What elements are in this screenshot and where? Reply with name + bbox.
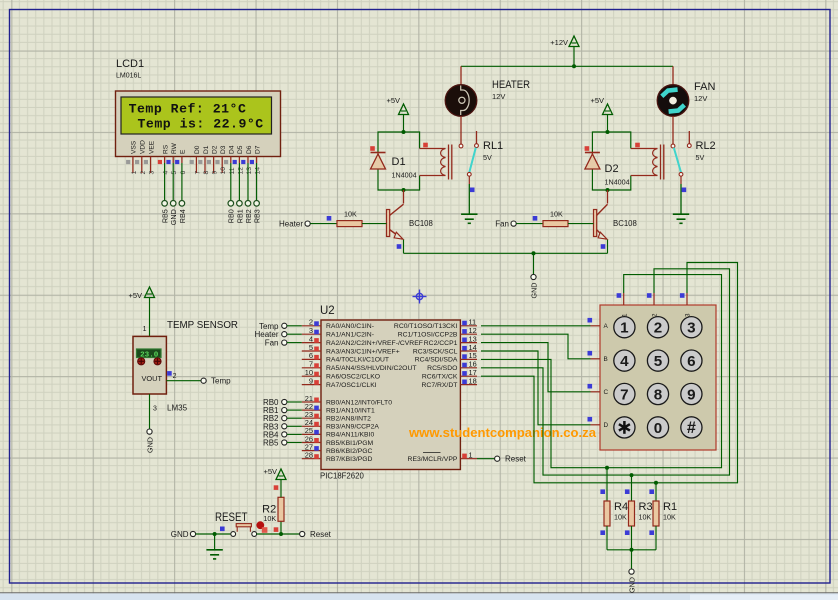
svg-text:4: 4 [163, 171, 170, 175]
svg-text:RE3/MCLR/VPP: RE3/MCLR/VPP [408, 456, 458, 463]
svg-text:Fan: Fan [265, 339, 279, 348]
svg-text:+5V: +5V [128, 291, 142, 300]
junction R2 bottom [279, 532, 283, 536]
transistor Q1 BC108 [387, 190, 433, 239]
svg-text:D1: D1 [392, 156, 406, 168]
svg-text:2: 2 [140, 171, 147, 175]
svg-text:GND: GND [529, 283, 538, 299]
svg-text:8: 8 [654, 386, 662, 403]
svg-text:5: 5 [654, 353, 663, 370]
svg-text:D4: D4 [229, 145, 236, 154]
svg-text:8: 8 [203, 171, 210, 175]
svg-text:RC7/RX/DT: RC7/RX/DT [422, 382, 458, 389]
svg-text:3: 3 [149, 171, 156, 175]
resistor R3 10K [625, 489, 653, 535]
svg-text:R3: R3 [639, 501, 653, 513]
svg-text:RL2: RL2 [696, 140, 716, 152]
svg-text:D7: D7 [254, 145, 261, 154]
svg-text:D2: D2 [211, 145, 218, 154]
svg-text:VOUT: VOUT [141, 374, 162, 383]
wire column to resistor R1 [655, 483, 657, 501]
node terminals Temp Heater Fan at U2 [254, 322, 286, 348]
push button RESET [231, 524, 257, 537]
junction top of D1 loop [402, 130, 406, 134]
node terminal GND below resistors [627, 569, 636, 593]
wire column to resistor R4 [606, 468, 608, 501]
keypad body [600, 305, 716, 450]
wire Q1 emitter down [403, 240, 405, 254]
svg-text:+5V: +5V [590, 96, 604, 105]
svg-text:5V: 5V [696, 153, 705, 162]
logic state square at Q2 emitter [601, 244, 606, 249]
svg-text:PIC18F2620: PIC18F2620 [320, 472, 364, 481]
wire emitter bus to GND terminal [533, 253, 535, 274]
wire fan top lead [672, 66, 674, 84]
svg-text:R4: R4 [614, 501, 628, 513]
microcontroller U2 PIC18F2620 body [320, 305, 460, 481]
wire pin 1 to Reset terminal [477, 458, 495, 460]
resistor R1 10K [649, 489, 677, 535]
resistor 10K base of Q2 [543, 209, 568, 226]
heater lamp HEATER [445, 79, 530, 116]
svg-text:6: 6 [687, 353, 695, 370]
svg-text:9: 9 [687, 386, 695, 403]
svg-text:RW: RW [171, 142, 178, 154]
svg-text:1: 1 [131, 171, 138, 175]
svg-text:Temp: Temp [211, 377, 231, 386]
keypad buttons 1-9 * 0 # [614, 317, 702, 438]
wire relay RL1 pole to ground [468, 176, 470, 214]
svg-text:7: 7 [620, 386, 628, 403]
watermark www.studentcompanion.co.za [408, 425, 597, 440]
U2 pins RB0-RB7 (pins 21-28) with pin numbers [302, 394, 392, 463]
svg-text:RB3/AN9/CCP2A: RB3/AN9/CCP2A [326, 424, 379, 431]
wire U2 pin16 keypad column2 net [481, 269, 730, 475]
node terminal Heater [279, 220, 310, 229]
svg-text:RC2/CCP1: RC2/CCP1 [424, 340, 458, 347]
power +5V above RL1 coil loop [386, 96, 408, 132]
svg-text:RB1/AN10/INT1: RB1/AN10/INT1 [326, 407, 375, 414]
wire bus to GND terminal [631, 550, 633, 569]
wire Heater terminal to resistor [310, 223, 337, 225]
svg-text:+5V: +5V [386, 96, 400, 105]
junction bottom of D1 loop [402, 188, 406, 192]
wire R2 bottom lead [280, 521, 282, 534]
relay RL1 contact [459, 131, 503, 176]
logic state square on Heater wire [327, 216, 332, 221]
diode D2 1N4004 [585, 146, 630, 186]
svg-text:10K: 10K [344, 209, 357, 218]
svg-text:RB5: RB5 [263, 439, 279, 448]
wire LM35 pin 3 to GND [150, 394, 158, 429]
sensor label TEMP SENSOR [167, 319, 238, 331]
wire reset button to R2 and Reset terminal [257, 533, 300, 535]
svg-text:RA2/AN2/C2IN+/VREF-/CVREF: RA2/AN2/C2IN+/VREF-/CVREF [326, 340, 423, 347]
junction bottom of D2 loop [606, 188, 610, 192]
wire U2 pin15 keypad column1 net [481, 275, 722, 468]
svg-text:RC0/T1OSO/T13CKI: RC0/T1OSO/T13CKI [394, 323, 458, 330]
svg-text:2: 2 [654, 320, 662, 337]
temperature sensor U1 LM35 body [133, 336, 166, 394]
svg-text:LM35: LM35 [167, 404, 188, 413]
node terminals RB5 GND RB4 RB0 RB1 RB2 RB3 below LCD [161, 201, 262, 226]
svg-text:LM016L: LM016L [116, 73, 141, 80]
junction column1 at R4 [605, 466, 609, 470]
svg-text:11: 11 [229, 167, 236, 174]
svg-text:RA0/AN0/C1IN-: RA0/AN0/C1IN- [326, 323, 374, 330]
svg-text:RB0/AN12/INT0/FLT0: RB0/AN12/INT0/FLT0 [326, 399, 392, 406]
svg-text:D5: D5 [237, 145, 244, 154]
wire resistor ground bus [607, 549, 656, 551]
wire emitter ground bus [404, 252, 608, 254]
LM35 part label [167, 404, 188, 413]
svg-text:FAN: FAN [694, 81, 715, 93]
LCD pin name labels VSS VDD VEE RS RW E D0-D7 [131, 140, 262, 154]
svg-text:GND: GND [169, 209, 178, 225]
svg-text:3: 3 [687, 320, 695, 337]
svg-text:RA7/OSC1/CLKI: RA7/OSC1/CLKI [326, 382, 377, 389]
svg-text:12V: 12V [694, 94, 707, 103]
svg-text:6: 6 [180, 171, 187, 175]
keypad column pins 1 2 3 [617, 293, 692, 317]
svg-text:VEE: VEE [148, 140, 155, 154]
svg-text:7: 7 [194, 171, 201, 175]
node terminal Reset at U2 [495, 455, 527, 464]
svg-text:1N4004: 1N4004 [605, 178, 630, 187]
svg-text:Temp is: 22.9°C: Temp is: 22.9°C [138, 116, 264, 131]
svg-text:VSS: VSS [131, 140, 138, 154]
node terminals RB0-RB5 at U2 [263, 398, 287, 448]
resistor R2 10K [262, 485, 284, 532]
LCD text line 1 [129, 101, 247, 116]
wire U2 pin17 keypad column3 net [481, 263, 738, 483]
svg-text:RA1/AN1/C2IN-: RA1/AN1/C2IN- [326, 332, 374, 339]
svg-text:RB5/KBI1/PGM: RB5/KBI1/PGM [326, 440, 374, 447]
LCD text line 2 [138, 116, 264, 131]
svg-text:2: 2 [173, 373, 177, 380]
wire resistor R4 bottom [606, 526, 608, 550]
svg-text:D: D [604, 422, 609, 429]
logic state square below RL2 [682, 188, 687, 193]
svg-text:5V: 5V [483, 153, 492, 162]
svg-text:C: C [604, 389, 609, 396]
svg-text:10K: 10K [263, 514, 276, 523]
wire resistor R1 bottom [655, 526, 657, 550]
wire column to resistor R3 [631, 475, 633, 501]
svg-text:RB3: RB3 [253, 209, 262, 223]
wire resistor to Q1 base [362, 223, 387, 225]
resistor R4 10K [600, 489, 628, 535]
svg-text:RB7/KBI3/PGD: RB7/KBI3/PGD [326, 456, 373, 463]
U2 pin RE3/MCLR/VPP (pin 1) [408, 451, 477, 464]
svg-text:1: 1 [620, 320, 629, 337]
svg-text:4: 4 [620, 353, 629, 370]
svg-text:Reset: Reset [310, 530, 332, 539]
svg-text:R1: R1 [663, 501, 677, 513]
svg-text:Fan: Fan [495, 220, 509, 229]
wire diode D2 / relay coil loop [592, 132, 630, 190]
svg-text:BC108: BC108 [409, 219, 433, 228]
svg-text:Reset: Reset [505, 455, 527, 464]
power +5V above RL2 coil loop [590, 96, 612, 132]
svg-text:9: 9 [212, 171, 219, 175]
node terminal GND below transistors [529, 274, 538, 298]
node terminal Fan [495, 220, 516, 229]
svg-text:RC5/SDO: RC5/SDO [427, 365, 457, 372]
button label RESET [215, 512, 248, 524]
svg-text:RESET: RESET [215, 512, 248, 524]
svg-text:10K: 10K [639, 513, 652, 522]
svg-text:www.studentcompanion.co.za: www.studentcompanion.co.za [408, 425, 597, 440]
wire heater lamp to relay RL1 common [460, 116, 462, 144]
svg-text:1: 1 [469, 451, 473, 460]
wire U2 pin14 to keypad row D [481, 351, 591, 425]
wire R2 top lead [280, 480, 282, 498]
svg-text:RA3/AN3/C1IN+/VREF+: RA3/AN3/C1IN+/VREF+ [326, 348, 400, 355]
wire diode D1 / relay coil loop [378, 132, 420, 190]
svg-text:B: B [604, 356, 608, 363]
svg-text:+12V: +12V [550, 38, 568, 47]
svg-text:Heater: Heater [279, 220, 303, 229]
logic state square on Fan wire [533, 216, 538, 221]
junction column2 at R3 [630, 473, 634, 477]
svg-text:RB6/KBI2/PGC: RB6/KBI2/PGC [326, 448, 373, 455]
svg-text:U2: U2 [320, 305, 335, 317]
svg-text:D0: D0 [194, 145, 201, 154]
svg-text:9: 9 [309, 376, 313, 385]
svg-text:D2: D2 [605, 163, 619, 175]
junction reset ground [213, 532, 217, 536]
node terminal GND at reset [171, 530, 196, 539]
svg-text:Temp Ref: 21°C: Temp Ref: 21°C [129, 101, 247, 116]
wire Fan terminal to resistor [516, 223, 543, 225]
svg-text:18: 18 [469, 376, 477, 385]
wire U2 pin13 to keypad row C [481, 343, 591, 392]
svg-text:10K: 10K [614, 513, 627, 522]
svg-text:RS: RS [162, 144, 169, 154]
svg-text:12: 12 [237, 167, 244, 175]
svg-text:10K: 10K [663, 513, 676, 522]
wire LM35 VOUT to Temp terminal [166, 371, 201, 381]
svg-text:RB4: RB4 [178, 209, 187, 223]
svg-text:0: 0 [654, 420, 662, 437]
svg-text:12V: 12V [492, 92, 505, 101]
wire Q2 emitter down [607, 240, 609, 254]
node terminal Reset bottom [300, 530, 332, 539]
junction top of D2 loop [606, 130, 610, 134]
transistor Q2 BC108 [594, 190, 637, 239]
svg-text:RL1: RL1 [483, 140, 503, 152]
U2 pins RC0-RC7 (pins 11-18) with pin numbers [394, 318, 477, 389]
svg-text:RA5/AN4/SS/HLVDIN/C2OUT: RA5/AN4/SS/HLVDIN/C2OUT [326, 365, 417, 372]
relay RL2 contact [671, 131, 716, 176]
junction resistor ground bus [630, 548, 634, 552]
wire +12V rail [461, 65, 673, 67]
LCD part label LCD1 [116, 58, 144, 80]
svg-text:BC108: BC108 [613, 219, 637, 228]
svg-text:D3: D3 [220, 145, 227, 154]
wire heater lamp top lead [460, 66, 462, 84]
svg-text:RC3/SCK/SCL: RC3/SCK/SCL [413, 348, 458, 355]
svg-text:RA4/T0CLKI/C1OUT: RA4/T0CLKI/C1OUT [326, 357, 389, 364]
wire +5V to LM35 pin 1 [143, 298, 150, 337]
svg-text:D1: D1 [203, 145, 210, 154]
power +5V above R2 [263, 467, 286, 480]
wire U2 pin12 to keypad row B [481, 334, 591, 359]
svg-text:A: A [604, 323, 609, 330]
ground symbol at reset [206, 534, 222, 559]
LCD display LCD1 body [116, 91, 281, 157]
svg-text:RB2/AN8/INT2: RB2/AN8/INT2 [326, 416, 371, 423]
svg-text:RA6/OSC2/CLKO: RA6/OSC2/CLKO [326, 374, 380, 381]
LCD pin stubs and pin numbers 1-14 [126, 157, 262, 175]
wire relay RL2 pole to ground [680, 176, 682, 214]
relay RL1 coil [420, 143, 452, 180]
svg-text:TEMP SENSOR: TEMP SENSOR [167, 319, 238, 331]
wire LCD pins 4,5,6,11-14 to terminals [165, 163, 257, 201]
svg-text:VDD: VDD [140, 140, 147, 154]
wire Temp Heater Fan terminals to U2 pins [287, 326, 302, 343]
svg-text:28: 28 [305, 451, 313, 460]
svg-text:E: E [180, 149, 187, 154]
svg-text:HEATER: HEATER [492, 79, 530, 91]
svg-text:RC4/SDI/SDA: RC4/SDI/SDA [415, 357, 458, 364]
LCD screen [121, 97, 272, 134]
power +5V above LM35 [128, 287, 154, 300]
svg-text:GND: GND [627, 577, 636, 593]
svg-text:LCD1: LCD1 [116, 58, 144, 70]
resistor 10K base of Q1 [337, 209, 362, 226]
svg-text:RC6/TX/CK: RC6/TX/CK [422, 374, 458, 381]
svg-text:14: 14 [255, 167, 262, 175]
relay RL2 coil [631, 143, 664, 180]
wire fan to relay RL2 common [672, 116, 674, 144]
diode D1 1N4004 [370, 146, 416, 179]
wire RB0-RB5 terminals to U2 pins [287, 402, 302, 443]
svg-text:RB4/AN11/KBI0: RB4/AN11/KBI0 [326, 432, 374, 439]
ground below relay RL2 [673, 214, 689, 223]
logic state square at Q1 emitter [397, 244, 402, 249]
fan motor FAN [657, 81, 715, 116]
logic state square at reset button [220, 527, 225, 532]
power +12V [550, 36, 579, 66]
wire GND terminal to reset button [196, 533, 231, 535]
svg-text:GND: GND [171, 530, 189, 539]
logic state square below RL1 [470, 188, 475, 193]
origin marker [413, 290, 427, 304]
svg-text:1N4004: 1N4004 [392, 171, 417, 180]
junction column3 at R1 [654, 481, 658, 485]
svg-text:10K: 10K [550, 209, 563, 218]
svg-text:1: 1 [143, 326, 147, 333]
wire U2 pin11 to keypad row A [481, 325, 591, 327]
junction +12V rail [572, 64, 576, 68]
wire resistor to Q2 base [568, 223, 594, 225]
svg-text:13: 13 [246, 167, 253, 175]
svg-text:10: 10 [220, 167, 227, 175]
svg-text:GND: GND [145, 437, 154, 453]
svg-text:#: # [687, 419, 696, 437]
keypad row pins A B C D [588, 318, 609, 429]
ground below relay RL1 [461, 214, 477, 223]
mouse cursor red dot [256, 521, 267, 533]
svg-text:+5V: +5V [263, 467, 277, 476]
svg-text:RC1/T1OSI/CCP2B: RC1/T1OSI/CCP2B [398, 332, 458, 339]
svg-text:3: 3 [153, 406, 157, 413]
U2 pins RA0-RA7 (pins 2-9) with pin numbers [302, 318, 423, 389]
node terminal GND below LM35 [145, 429, 154, 453]
junction emitter bus [532, 251, 536, 255]
svg-text:D6: D6 [246, 145, 253, 154]
node terminal Temp at LM35 [201, 377, 231, 386]
svg-text:5: 5 [171, 171, 178, 175]
wire resistor R3 bottom [631, 526, 633, 550]
